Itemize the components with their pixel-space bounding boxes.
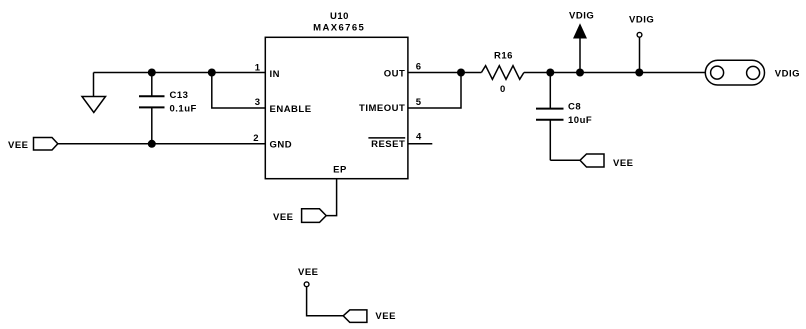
IC U10 MAX6765 body bbox=[265, 37, 408, 178]
svg-text:C8: C8 bbox=[568, 102, 581, 113]
svg-text:VEE: VEE bbox=[298, 267, 319, 278]
node junction OUT/TIMEOUT bbox=[457, 69, 465, 77]
svg-text:GND: GND bbox=[270, 140, 293, 151]
wire ENABLE branch bbox=[212, 73, 265, 109]
wire OUT pin bbox=[408, 72, 461, 74]
wire OUT net to connector bbox=[550, 72, 705, 74]
VEE port at C8 bbox=[580, 154, 634, 169]
resistor R16 bbox=[461, 51, 550, 96]
svg-text:IN: IN bbox=[270, 69, 281, 80]
node junction VDIG terminal bbox=[635, 69, 643, 77]
node junction VDIG arrow bbox=[576, 69, 584, 77]
svg-text:EP: EP bbox=[333, 165, 347, 176]
node junction C13 bottom bbox=[148, 140, 156, 148]
terminal VDIG circle bbox=[629, 14, 654, 72]
wire TIMEOUT branch bbox=[408, 73, 461, 109]
svg-text:VEE: VEE bbox=[273, 212, 294, 223]
pin RESET label (active low) bbox=[368, 138, 405, 150]
node junction C8 bbox=[546, 69, 554, 77]
VEE port bottom bbox=[343, 310, 396, 323]
svg-text:VDIG: VDIG bbox=[569, 11, 594, 22]
svg-text:C13: C13 bbox=[170, 90, 189, 101]
svg-text:10uF: 10uF bbox=[568, 115, 592, 126]
ground bbox=[82, 73, 106, 113]
node junction ENABLE branch bbox=[208, 69, 216, 77]
wire GND net bbox=[58, 143, 265, 145]
wire RESET stub (no connect) bbox=[408, 143, 432, 145]
svg-text:TIMEOUT: TIMEOUT bbox=[359, 103, 405, 114]
svg-text:RESET: RESET bbox=[371, 139, 405, 150]
connector VDIG (dual pad) bbox=[705, 60, 800, 85]
wire C8 to VEE bbox=[550, 159, 580, 161]
svg-text:VEE: VEE bbox=[8, 140, 29, 151]
VEE port left bbox=[8, 138, 58, 151]
svg-text:VEE: VEE bbox=[613, 158, 634, 169]
svg-text:VDIG: VDIG bbox=[629, 14, 654, 25]
svg-text:ENABLE: ENABLE bbox=[270, 104, 312, 115]
capacitor C8 bbox=[536, 73, 592, 161]
svg-text:5: 5 bbox=[416, 97, 422, 108]
svg-text:R16: R16 bbox=[494, 51, 513, 62]
svg-text:2: 2 bbox=[253, 133, 259, 144]
svg-text:U10: U10 bbox=[330, 11, 349, 22]
capacitor C13 bbox=[139, 73, 197, 144]
terminal VEE circle (bottom) bbox=[298, 267, 343, 316]
svg-text:1: 1 bbox=[255, 62, 261, 73]
node junction C13 top bbox=[148, 69, 156, 77]
svg-text:VEE: VEE bbox=[375, 311, 396, 322]
wire top rail IN net bbox=[94, 72, 266, 74]
power VDIG arrow bbox=[569, 11, 594, 73]
wire EP net bbox=[326, 179, 336, 216]
svg-text:0.1uF: 0.1uF bbox=[170, 103, 197, 114]
svg-text:4: 4 bbox=[416, 132, 422, 143]
svg-text:OUT: OUT bbox=[384, 69, 406, 80]
VEE port left flag bbox=[34, 138, 58, 151]
svg-text:3: 3 bbox=[255, 97, 261, 108]
svg-text:VDIG: VDIG bbox=[775, 69, 800, 80]
VEE port at EP bbox=[273, 209, 326, 223]
svg-text:6: 6 bbox=[416, 62, 422, 73]
svg-text:0: 0 bbox=[500, 84, 506, 95]
svg-text:MAX6765: MAX6765 bbox=[313, 22, 365, 33]
